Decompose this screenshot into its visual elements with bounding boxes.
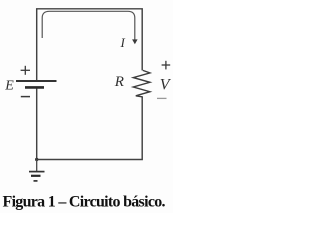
svg-text:E: E (4, 79, 14, 94)
svg-text:I: I (120, 35, 126, 50)
svg-text:V: V (160, 77, 172, 94)
svg-text:Figura 1 – Circuito básico.: Figura 1 – Circuito básico. (3, 194, 166, 211)
svg-text:R: R (114, 74, 124, 90)
